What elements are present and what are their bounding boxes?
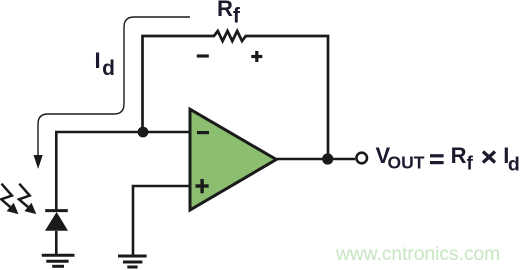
svg-text:f: f bbox=[467, 154, 474, 175]
svg-text:OUT: OUT bbox=[388, 153, 425, 173]
svg-text:R: R bbox=[451, 143, 467, 168]
svg-text:d: d bbox=[508, 154, 520, 176]
